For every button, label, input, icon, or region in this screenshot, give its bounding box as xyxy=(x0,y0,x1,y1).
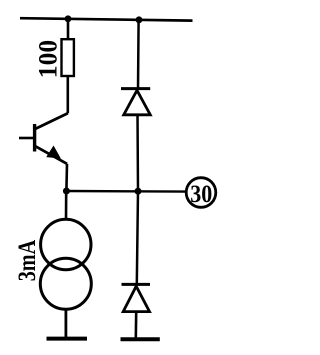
bottom terminal bar (diode branch) xyxy=(121,337,160,341)
label 30 xyxy=(190,179,212,208)
wire diode D2 to bottom terminal xyxy=(135,312,138,339)
svg-text:100: 100 xyxy=(34,40,63,78)
wire rail to resistor xyxy=(67,19,70,39)
svg-text:3mA: 3mA xyxy=(14,240,41,282)
diode D2 (lower, cathode bar at top) xyxy=(122,284,151,311)
wire resistor to transistor collector xyxy=(67,77,70,114)
wire node down to current source I1 xyxy=(65,191,68,219)
wire diode D1 to node xyxy=(136,115,139,191)
wire current source to ground bar xyxy=(65,309,68,338)
wire rail to diode D1 xyxy=(137,20,140,89)
node junction dot (diode branch) xyxy=(135,188,142,195)
junction dot at rail / diode branch xyxy=(136,16,143,23)
wire node horizontal to terminal 30 xyxy=(66,190,185,193)
power rail (top supply line) xyxy=(20,18,193,20)
junction dot at rail / resistor branch xyxy=(65,15,72,22)
wire node to diode D2 xyxy=(137,191,138,284)
label 3mA (current source value) xyxy=(14,240,41,282)
wire transistor emitter down to node xyxy=(65,164,68,191)
label 100 (resistor value) xyxy=(34,40,63,78)
ground bar (current source branch) xyxy=(47,337,88,341)
diode D1 (upper, cathode bar at top) xyxy=(121,89,150,115)
terminal 30 (circle) xyxy=(186,178,216,208)
current source I1 (two overlapping circles) xyxy=(40,219,91,309)
svg-text:30: 30 xyxy=(190,179,212,208)
node junction dot (emitter / output node) xyxy=(63,188,70,195)
resistor R1 body xyxy=(62,39,74,76)
transistor Q1 (NPN) xyxy=(19,113,68,164)
